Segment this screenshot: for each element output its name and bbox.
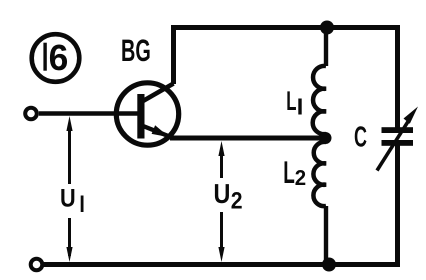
voltage U2 line upper bbox=[220, 148, 223, 178]
wire right vertical lower (from capacitor) and bottom wire bbox=[43, 146, 398, 265]
node junction bottom bbox=[322, 258, 336, 272]
transistor collector lead bbox=[143, 84, 174, 102]
svg-text:2: 2 bbox=[295, 166, 306, 190]
terminal top input bbox=[25, 108, 37, 120]
transistor emitter lead bbox=[143, 126, 172, 138]
node junction top bbox=[320, 21, 334, 35]
svg-text:6: 6 bbox=[49, 37, 69, 78]
wire right vertical upper (to capacitor) bbox=[395, 25, 400, 128]
badge digit 1 bbox=[43, 43, 46, 71]
capacitor C variable arrow shaft bbox=[377, 120, 409, 171]
label L1 subscript bbox=[298, 99, 301, 115]
voltage U2 line lower bbox=[220, 212, 223, 250]
label U1 subscript bbox=[81, 196, 84, 213]
wire inductor branch bottom bbox=[324, 206, 328, 265]
badge circle 16 bbox=[32, 34, 80, 82]
voltage U1 arrow top bbox=[66, 116, 72, 131]
voltage U2 arrow bottom bbox=[218, 247, 224, 262]
terminal bottom input bbox=[31, 259, 43, 271]
transistor BG circle bbox=[116, 83, 178, 145]
wire inductor branch top bbox=[324, 28, 328, 67]
svg-text:L: L bbox=[283, 154, 295, 190]
svg-text:BG: BG bbox=[121, 33, 151, 68]
transistor emitter arrowhead bbox=[152, 125, 170, 137]
wire base (top terminal to transistor base) bbox=[39, 111, 140, 116]
svg-text:U: U bbox=[60, 185, 76, 213]
transistor base bar bbox=[137, 94, 144, 139]
svg-text:U: U bbox=[214, 178, 231, 209]
svg-text:C: C bbox=[354, 122, 367, 154]
svg-text:2: 2 bbox=[231, 189, 243, 215]
node junction tap bbox=[320, 132, 332, 144]
capacitor C plate bottom bbox=[382, 140, 414, 146]
voltage U1 line upper bbox=[68, 124, 71, 184]
capacitor C plate top bbox=[382, 127, 414, 133]
inductor L1 bbox=[313, 66, 326, 134]
wire collector up and top wire bbox=[174, 28, 398, 85]
wire emitter to inductor tap bbox=[170, 136, 326, 141]
voltage U1 line lower bbox=[68, 218, 71, 256]
capacitor C variable arrowhead bbox=[404, 107, 419, 124]
voltage U2 arrow top bbox=[218, 141, 224, 156]
svg-text:L: L bbox=[286, 86, 296, 116]
inductor L2 bbox=[313, 142, 326, 206]
voltage U1 arrow bottom bbox=[66, 247, 72, 262]
